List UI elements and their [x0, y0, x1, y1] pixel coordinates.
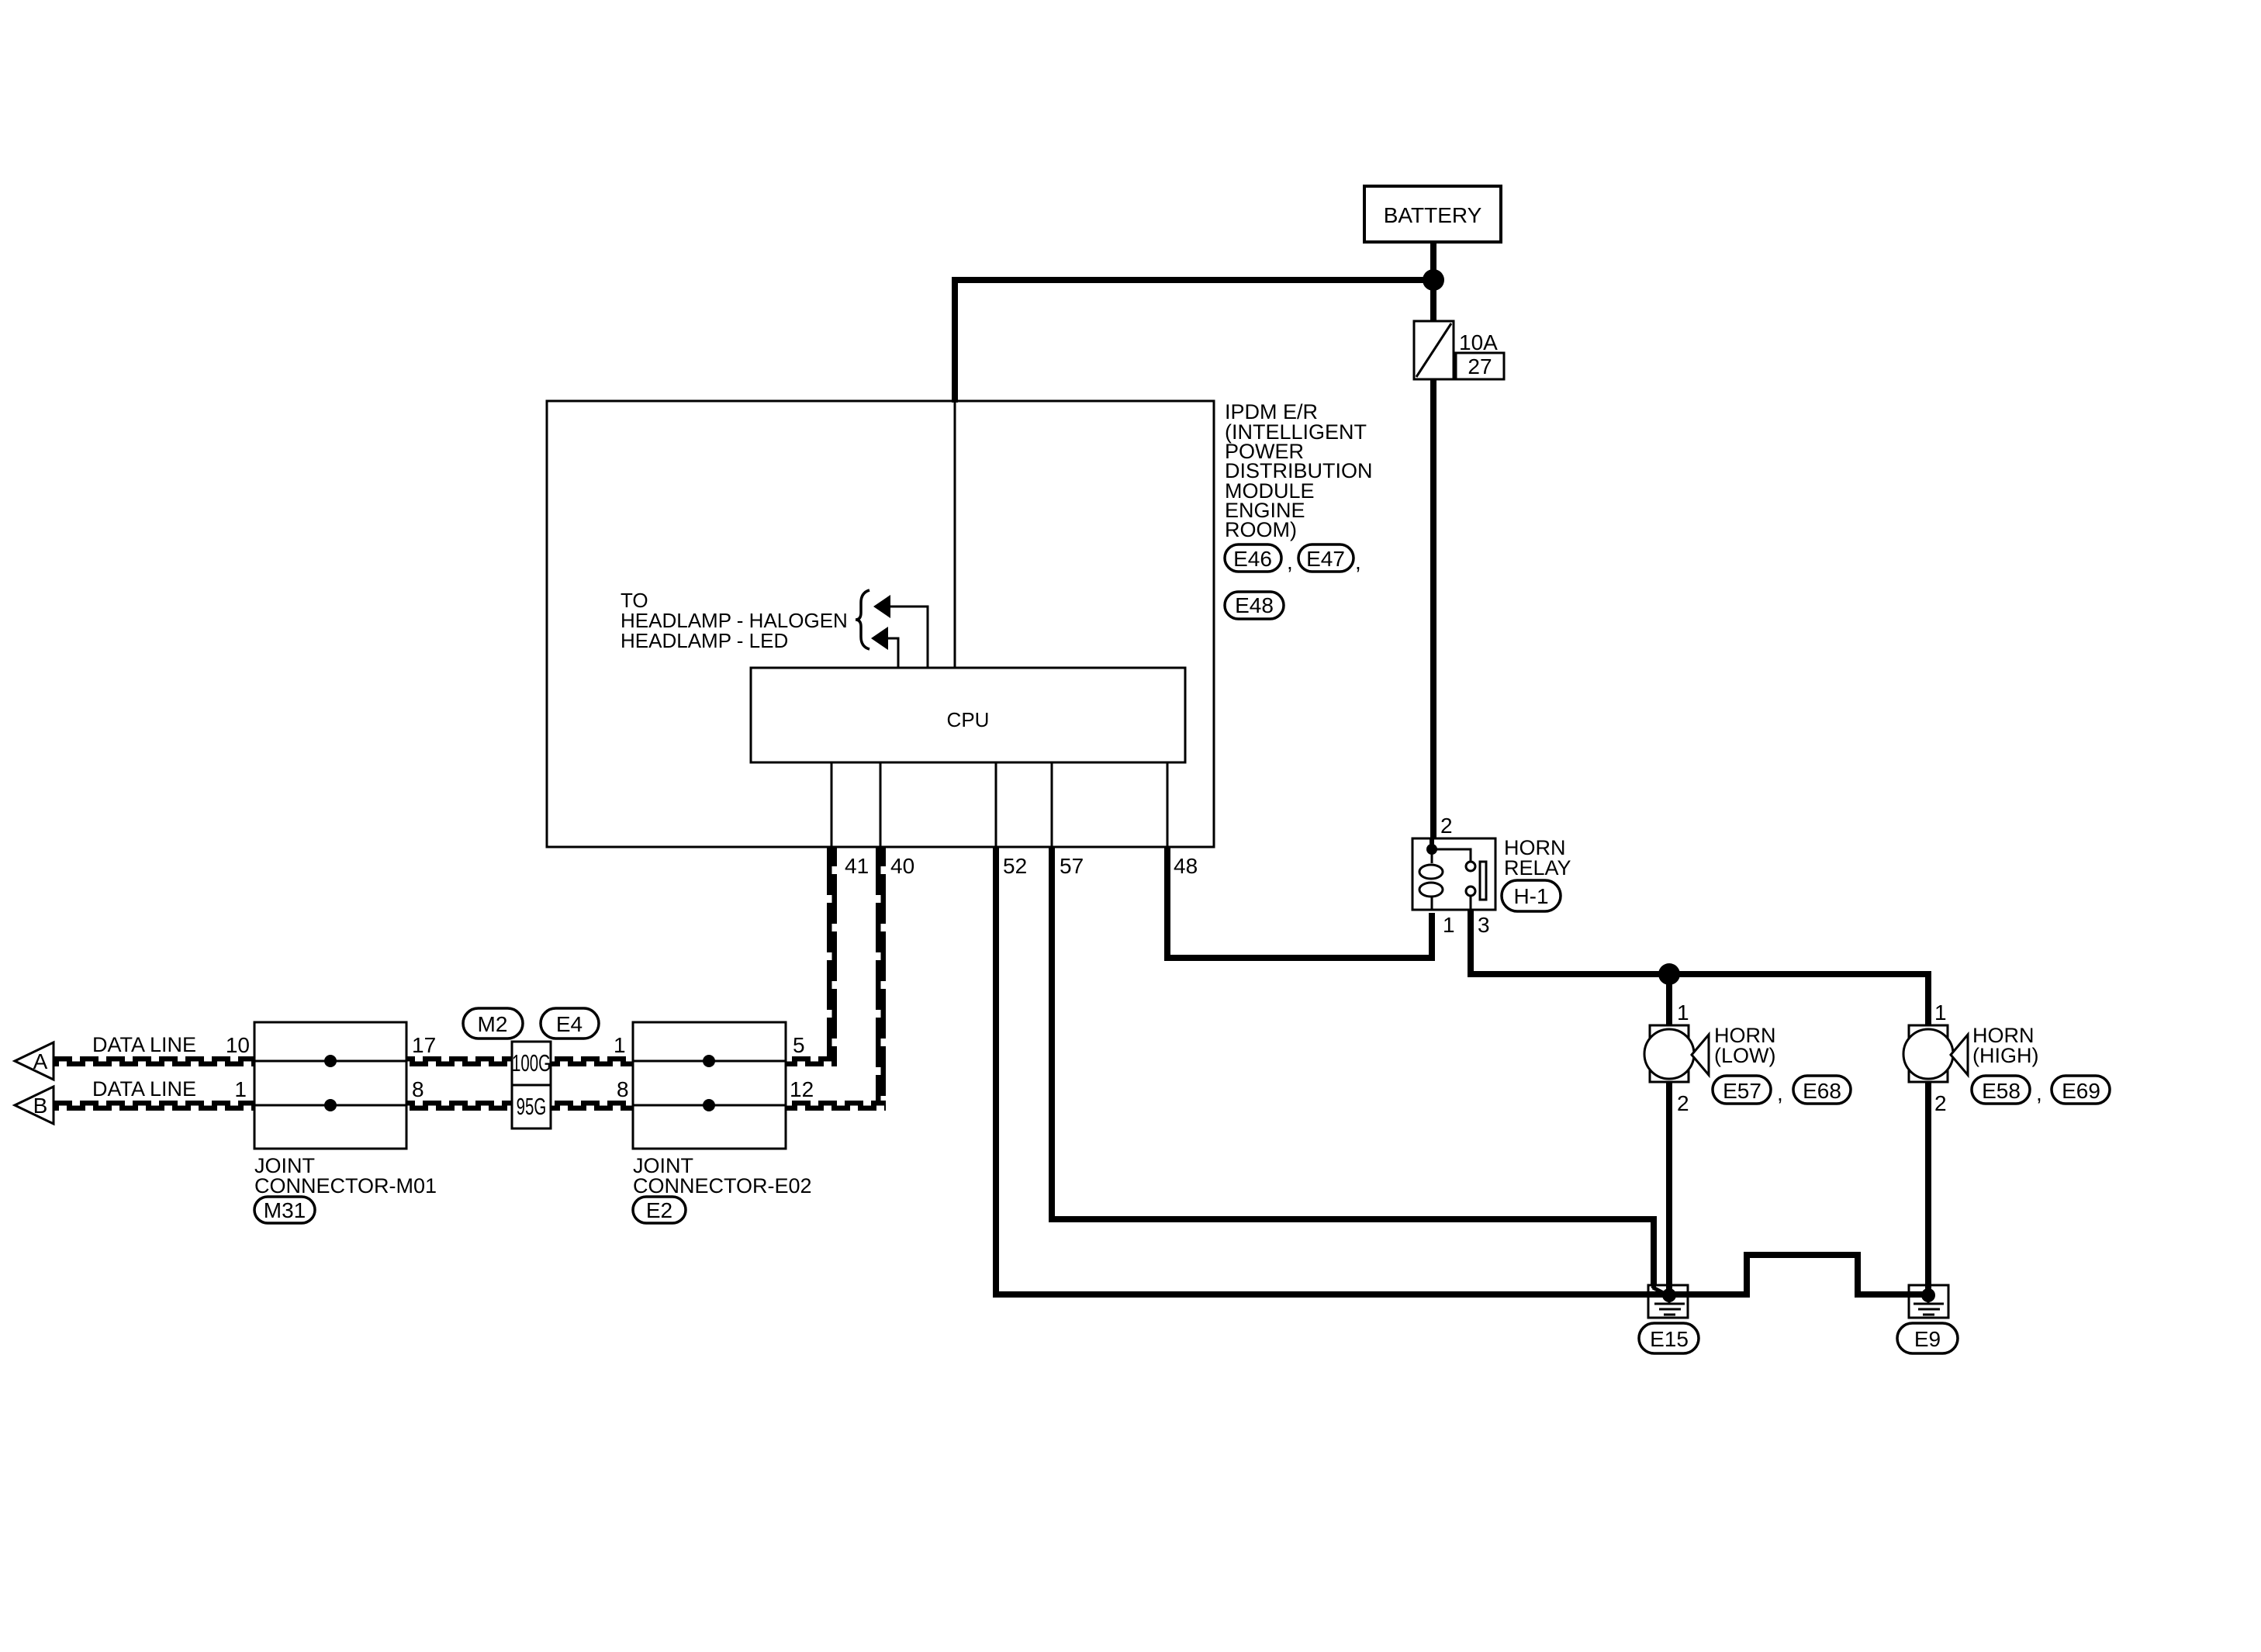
svg-text:E47: E47 [1306, 547, 1345, 571]
wire data line A shielded [54, 1056, 837, 1066]
label HORN (LOW) [1714, 1024, 1776, 1067]
svg-text:A: A [33, 1049, 48, 1073]
svg-text:H-1: H-1 [1513, 884, 1548, 908]
horn LOW symbol [1644, 1025, 1709, 1082]
CPU pin 48 stub [1167, 762, 1169, 847]
svg-text:,: , [1355, 550, 1361, 574]
svg-text:48: 48 [1174, 854, 1198, 878]
svg-text:1: 1 [234, 1077, 247, 1101]
svg-text:E2: E2 [646, 1198, 672, 1222]
wire fuse to horn relay pin 2 [1430, 379, 1436, 838]
wire pin 41 shielded vertical [827, 847, 837, 1066]
wire horn high pin 2 to E9 [1925, 1082, 1931, 1289]
brace [856, 590, 869, 649]
connector E46 [1225, 544, 1293, 574]
connector H-1 [1502, 880, 1561, 911]
svg-text:12: 12 [790, 1077, 814, 1101]
node battery junction [1423, 269, 1444, 291]
svg-text:DATA LINE: DATA LINE [92, 1033, 196, 1056]
CPU pin 41 stub [831, 762, 833, 847]
svg-text:95G: 95G [517, 1093, 547, 1120]
wire label 95G [512, 1085, 551, 1128]
svg-text:E68: E68 [1803, 1079, 1841, 1103]
svg-text:E46: E46 [1233, 547, 1272, 571]
svg-text:E48: E48 [1235, 593, 1274, 617]
svg-text:1: 1 [1677, 1001, 1689, 1025]
ground E15 [1648, 1285, 1688, 1318]
IPDM E/R box [547, 401, 1214, 847]
wire data line B shielded [54, 1101, 886, 1111]
connector E68 [1793, 1076, 1851, 1104]
svg-text:52: 52 [1003, 854, 1027, 878]
svg-text:5: 5 [793, 1033, 805, 1057]
svg-text:2: 2 [1440, 814, 1453, 838]
CPU pin 57 stub [1051, 762, 1053, 847]
horn HIGH symbol [1903, 1025, 1968, 1082]
node horn junction [1658, 963, 1680, 985]
svg-text:100G: 100G [512, 1049, 551, 1077]
svg-text:E57: E57 [1723, 1079, 1761, 1103]
CPU box U1 [751, 668, 1185, 762]
horn relay H-1 [1412, 838, 1495, 910]
wire label 100G [512, 1042, 551, 1085]
battery BATTERY [1364, 186, 1501, 242]
wire to headlamp halogen with arrow [873, 595, 928, 668]
svg-text:M31: M31 [264, 1198, 306, 1222]
joint connector E02 [633, 1022, 786, 1149]
svg-text:HEADLAMP - LED: HEADLAMP - LED [621, 629, 788, 652]
svg-text:ROOM): ROOM) [1225, 518, 1297, 541]
wire battery feed inside IPDM to CPU [954, 401, 956, 668]
connector E48 [1225, 592, 1284, 619]
wire horn low pin 2 to E15 [1666, 1082, 1672, 1289]
svg-text:10A: 10A [1459, 330, 1498, 354]
svg-text:E15: E15 [1650, 1327, 1689, 1351]
data line B arrow [15, 1087, 54, 1124]
svg-text:8: 8 [412, 1077, 424, 1101]
connector E58 [1972, 1076, 2042, 1105]
connector M2 [463, 1008, 523, 1039]
svg-text:E4: E4 [556, 1012, 583, 1036]
svg-text:10: 10 [226, 1033, 250, 1057]
connector E2 [633, 1197, 686, 1223]
connector E9 [1897, 1323, 1958, 1353]
label TO HEADLAMP [621, 589, 848, 652]
connector E47 [1298, 544, 1361, 574]
svg-text:CPU: CPU [947, 708, 990, 731]
ground E9 [1909, 1285, 1948, 1318]
svg-text:1: 1 [614, 1033, 626, 1057]
connector E15 [1639, 1323, 1699, 1353]
data line A arrow [15, 1042, 54, 1080]
wire junction to IPDM top [955, 280, 1433, 403]
svg-text:2: 2 [1934, 1091, 1947, 1115]
svg-text:,: , [1287, 550, 1293, 574]
label HORN (HIGH) [1972, 1024, 2038, 1067]
svg-text:CONNECTOR-E02: CONNECTOR-E02 [633, 1174, 812, 1198]
CPU pin 40 stub [880, 762, 882, 847]
svg-text:40: 40 [890, 854, 914, 878]
svg-text:3: 3 [1478, 913, 1490, 937]
label IPDM E/R [1225, 400, 1373, 541]
svg-text:BATTERY: BATTERY [1384, 203, 1482, 227]
connector M31 [254, 1197, 315, 1223]
connector E4 [541, 1008, 599, 1039]
wire pin 40 shielded vertical [876, 847, 886, 1111]
svg-text:RELAY: RELAY [1504, 856, 1571, 880]
CPU pin 52 stub [995, 762, 997, 847]
svg-text:CONNECTOR-M01: CONNECTOR-M01 [254, 1174, 437, 1198]
svg-text:17: 17 [412, 1033, 436, 1057]
svg-text:(HIGH): (HIGH) [1972, 1044, 2038, 1067]
svg-text:8: 8 [617, 1077, 629, 1101]
svg-text:1: 1 [1443, 913, 1455, 937]
label JOINT CONNECTOR-E02 [633, 1154, 812, 1198]
wire junction to horn low [1666, 974, 1672, 1025]
connector E57 [1713, 1076, 1783, 1105]
svg-text:2: 2 [1677, 1091, 1689, 1115]
svg-text:DATA LINE: DATA LINE [92, 1077, 196, 1101]
svg-text:41: 41 [845, 854, 869, 878]
svg-text:1: 1 [1934, 1001, 1947, 1025]
svg-text:57: 57 [1060, 854, 1084, 878]
joint connector M01 [254, 1022, 406, 1149]
label HORN RELAY [1504, 836, 1571, 880]
svg-text:B: B [33, 1094, 48, 1118]
svg-text:E69: E69 [2062, 1079, 2100, 1103]
svg-text:E58: E58 [1982, 1079, 2021, 1103]
connector E69 [2052, 1076, 2110, 1104]
wire to headlamp LED with arrow [871, 627, 898, 668]
wire pin 57 to ground E15 [1052, 847, 1654, 1289]
svg-text:27: 27 [1468, 354, 1492, 378]
wire pin 48 to horn relay pin 1 [1167, 847, 1432, 958]
wire relay pin 3 to horns [1471, 910, 1928, 1025]
svg-text:M2: M2 [478, 1012, 508, 1036]
svg-text:(LOW): (LOW) [1714, 1044, 1775, 1067]
svg-text:E9: E9 [1914, 1327, 1941, 1351]
wire E15 to E9 jog [1675, 1255, 1916, 1294]
wire battery to junction [1430, 242, 1436, 321]
fuse 10A 27 [1414, 321, 1504, 379]
svg-text:,: , [1777, 1081, 1783, 1105]
svg-text:,: , [2036, 1081, 2042, 1105]
wire pin 52 to ground E15 [996, 847, 1669, 1294]
label JOINT CONNECTOR-M01 [254, 1154, 437, 1198]
